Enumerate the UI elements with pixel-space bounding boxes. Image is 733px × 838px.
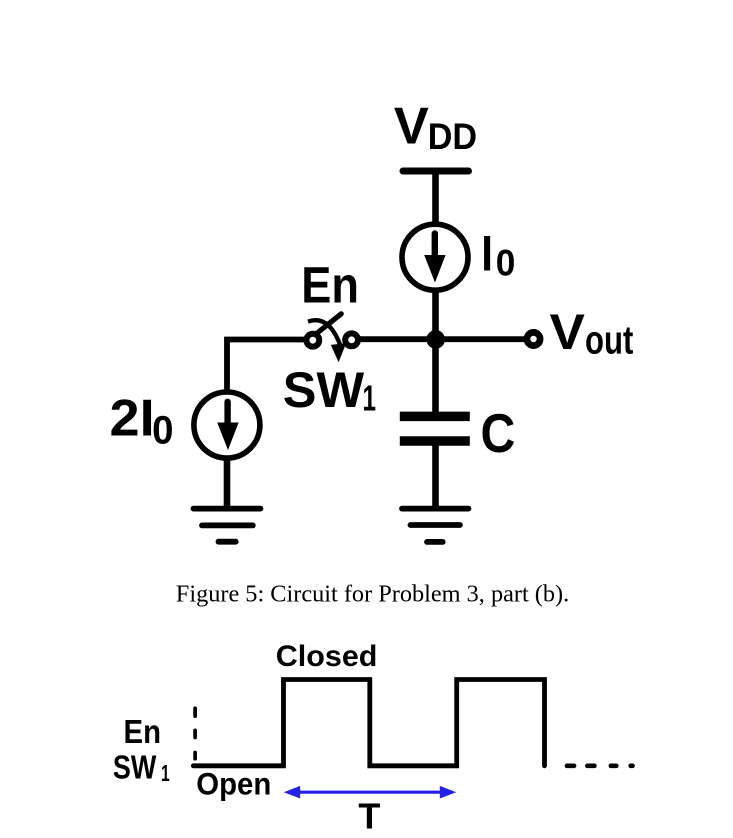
svg-text:I: I	[481, 225, 493, 281]
svg-text:SW: SW	[283, 361, 365, 418]
wire switch to node	[357, 336, 436, 342]
timing dotted level marker	[193, 708, 197, 759]
node VDD label	[394, 98, 477, 158]
svg-text:0: 0	[152, 409, 173, 453]
wire 2I0 to ground	[224, 456, 231, 509]
svg-text:En: En	[124, 713, 161, 750]
wire node to Vout terminal	[436, 336, 525, 342]
svg-text:DD: DD	[428, 116, 477, 158]
svg-text:C: C	[481, 402, 516, 464]
wire capacitor to ground	[432, 445, 439, 509]
node junction dot	[426, 330, 445, 349]
switch SW1 blade	[316, 314, 341, 334]
svg-text:1: 1	[363, 379, 377, 419]
capacitor C top plate	[400, 412, 470, 422]
current source 2I0 arrow	[217, 402, 238, 450]
wire node to capacitor	[432, 339, 439, 412]
svg-text:1: 1	[161, 761, 170, 787]
VDD supply rail bar	[403, 168, 469, 175]
svg-text:2I: 2I	[110, 389, 155, 447]
label SW1 (switch)	[283, 361, 376, 419]
current source I0 arrow	[424, 234, 445, 283]
svg-text:0: 0	[496, 242, 516, 284]
label Vout	[549, 303, 633, 362]
svg-text:SW: SW	[113, 750, 157, 786]
svg-text:Open: Open	[196, 766, 271, 801]
label I0	[481, 225, 515, 284]
svg-text:Closed: Closed	[276, 641, 378, 673]
Vout open terminal	[527, 332, 540, 345]
ground (right)	[402, 509, 469, 542]
svg-text:V: V	[394, 98, 429, 156]
ground (left)	[194, 509, 261, 542]
svg-text:V: V	[549, 303, 585, 359]
wire VDD rail to current source I0	[432, 171, 439, 226]
current source I0 circle	[402, 224, 468, 290]
svg-text:Figure 5: Circuit for Problem: Figure 5: Circuit for Problem 3, part (b…	[176, 581, 569, 608]
capacitor C bottom plate	[400, 436, 470, 446]
svg-text:T: T	[358, 796, 380, 837]
wire left corner to switch	[227, 340, 307, 393]
wire I0 to output node	[432, 288, 439, 344]
timing period arrow (blue)	[284, 786, 456, 799]
timing waveform trailing dashes	[567, 763, 633, 768]
switch action arc arrow	[308, 320, 346, 362]
label 2I0	[110, 389, 174, 453]
timing waveform	[193, 680, 544, 766]
svg-text:out: out	[585, 318, 633, 363]
svg-text:En: En	[301, 257, 359, 314]
switch SW1 left contact	[306, 334, 319, 347]
current source 2I0 circle	[194, 392, 260, 458]
switch SW1 right contact	[345, 333, 358, 346]
timing label SW1	[113, 750, 170, 787]
